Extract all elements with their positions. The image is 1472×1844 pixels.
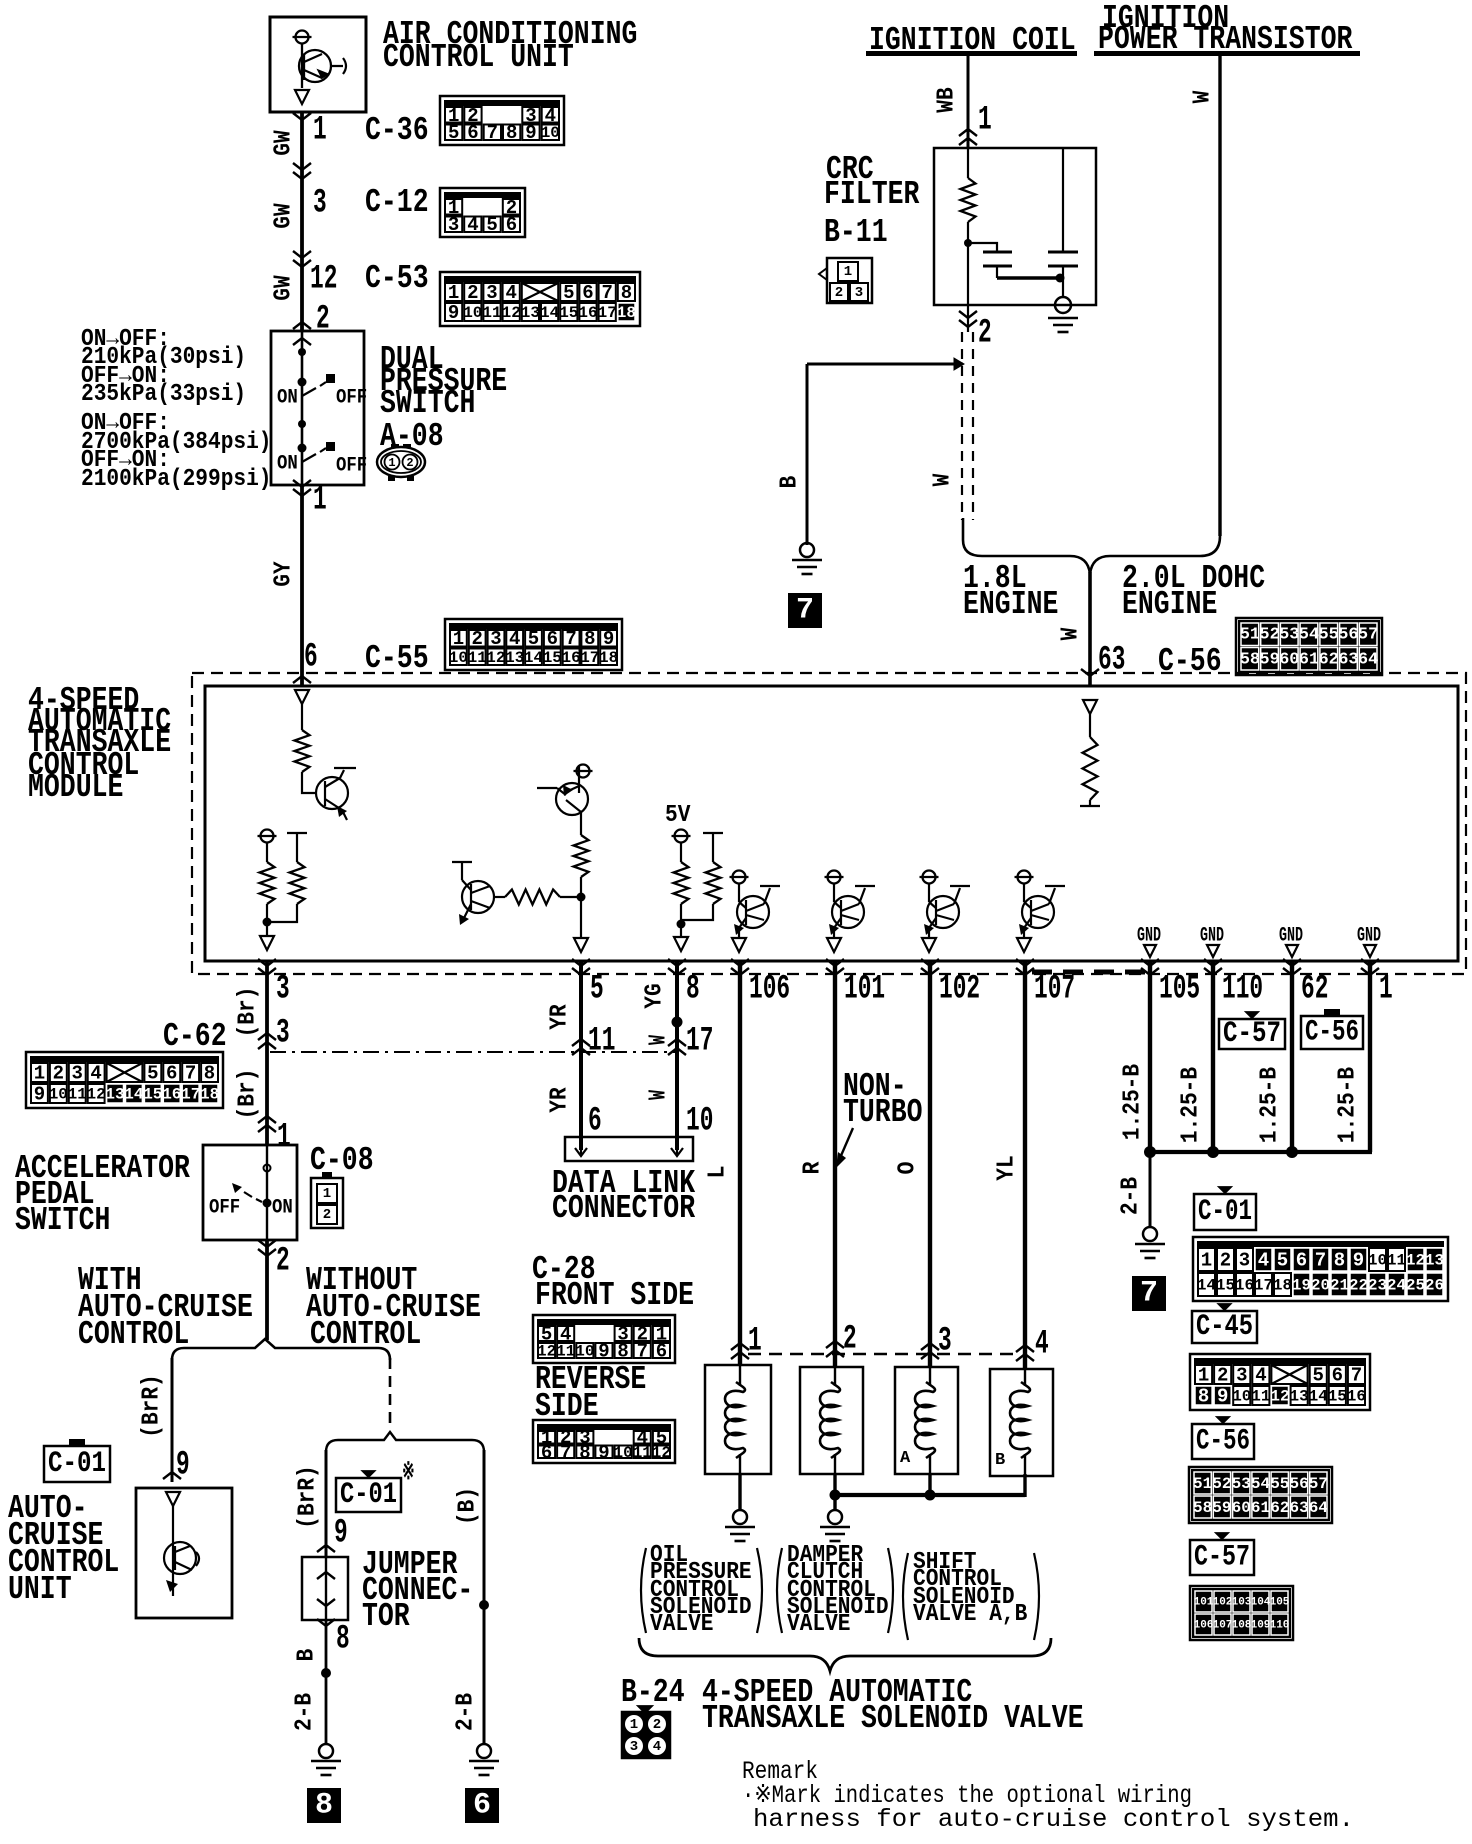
svg-text:※: ※ bbox=[402, 1460, 415, 1487]
svg-text:1: 1 bbox=[277, 1119, 291, 1157]
svg-text:GW: GW bbox=[271, 203, 298, 229]
svg-text:53: 53 bbox=[1232, 1475, 1251, 1493]
svg-text:3: 3 bbox=[276, 971, 290, 1009]
svg-text:16: 16 bbox=[578, 304, 597, 322]
solenoid valve name annotations bbox=[641, 1548, 646, 1633]
second split for jumper connector bbox=[326, 1432, 484, 1452]
box: auto-cruise control unit bbox=[136, 1488, 232, 1618]
svg-text:15: 15 bbox=[559, 304, 578, 322]
svg-text:ON: ON bbox=[272, 1197, 293, 1220]
svg-text:2: 2 bbox=[53, 1063, 64, 1085]
wire YG/W from pin 8 bbox=[675, 961, 679, 1150]
svg-text:10: 10 bbox=[49, 1086, 68, 1104]
svg-text:R: R bbox=[800, 1161, 827, 1175]
connector label C-01 bbox=[44, 1446, 110, 1482]
svg-text:12: 12 bbox=[652, 1444, 671, 1462]
svg-text:6: 6 bbox=[1332, 1365, 1343, 1387]
svg-text:CONTROL: CONTROL bbox=[78, 1316, 189, 1353]
connector C-45 bbox=[1190, 1354, 1370, 1410]
svg-text:TRANSAXLE SOLENOID VALVE: TRANSAXLE SOLENOID VALVE bbox=[702, 1700, 1084, 1737]
svg-text:56: 56 bbox=[1289, 1475, 1308, 1493]
wire O from pin 102 bbox=[928, 961, 932, 1367]
svg-text:13: 13 bbox=[505, 649, 524, 667]
svg-text:12: 12 bbox=[310, 261, 337, 299]
svg-text:11: 11 bbox=[633, 1444, 652, 1462]
svg-text:C-57: C-57 bbox=[1223, 1017, 1281, 1051]
svg-text:C-01: C-01 bbox=[1198, 1195, 1252, 1229]
svg-text:7: 7 bbox=[487, 122, 498, 144]
output transistor Q4 bbox=[733, 871, 746, 884]
svg-text:17: 17 bbox=[580, 649, 599, 667]
svg-text:18: 18 bbox=[1273, 1277, 1292, 1295]
connector C-56 (engine side) bbox=[1236, 618, 1382, 675]
svg-text:10: 10 bbox=[1232, 1388, 1251, 1406]
svg-text:ON: ON bbox=[277, 387, 298, 410]
connector C-53 bbox=[440, 272, 640, 326]
svg-text:12: 12 bbox=[1406, 1252, 1425, 1270]
output transistor Q6 bbox=[923, 871, 936, 884]
svg-text:W: W bbox=[646, 1035, 673, 1045]
svg-text:8: 8 bbox=[1334, 1250, 1345, 1272]
svg-text:YR: YR bbox=[547, 1004, 574, 1030]
svg-text:10: 10 bbox=[463, 304, 482, 322]
pin 2 of CRC filter bbox=[959, 311, 977, 327]
svg-text:7: 7 bbox=[565, 628, 576, 650]
ground ref box 8 bbox=[307, 1788, 341, 1823]
svg-text:58: 58 bbox=[1240, 650, 1260, 669]
svg-text:2: 2 bbox=[316, 301, 330, 339]
svg-text:C-62: C-62 bbox=[163, 1018, 227, 1055]
svg-text:4: 4 bbox=[1258, 1250, 1269, 1272]
svg-text:55: 55 bbox=[1270, 1475, 1289, 1493]
svg-text:10: 10 bbox=[575, 1343, 594, 1361]
svg-text:2-B: 2-B bbox=[1118, 1177, 1145, 1215]
svg-text:12: 12 bbox=[486, 649, 505, 667]
svg-text:52: 52 bbox=[1259, 626, 1279, 645]
svg-text:106: 106 bbox=[1194, 1620, 1214, 1632]
wire joining capacitors bbox=[996, 272, 998, 278]
svg-text:8: 8 bbox=[584, 628, 595, 650]
svg-text:YL: YL bbox=[994, 1155, 1021, 1180]
svg-text:VALVE: VALVE bbox=[787, 1611, 851, 1638]
svg-text:9: 9 bbox=[598, 1442, 609, 1464]
svg-text:SWITCH: SWITCH bbox=[380, 385, 475, 422]
box: dual pressure switch A-08 bbox=[271, 331, 364, 485]
svg-text:7: 7 bbox=[796, 594, 814, 628]
connector C-57 bbox=[1190, 1586, 1293, 1640]
svg-text:B-11: B-11 bbox=[824, 214, 888, 251]
svg-text:59: 59 bbox=[1259, 650, 1279, 669]
svg-text:6: 6 bbox=[473, 1789, 491, 1823]
svg-text:OFF: OFF bbox=[336, 387, 367, 410]
svg-text:7: 7 bbox=[601, 282, 612, 304]
svg-text:11: 11 bbox=[556, 1343, 575, 1361]
bold dashed border segment bbox=[1032, 970, 1146, 975]
case ground of CRC filter bbox=[1062, 278, 1064, 297]
svg-text:13: 13 bbox=[1289, 1388, 1308, 1406]
svg-text:1.25-B: 1.25-B bbox=[1335, 1067, 1362, 1143]
svg-text:17: 17 bbox=[1254, 1277, 1273, 1295]
svg-text:C-12: C-12 bbox=[365, 184, 429, 221]
svg-text:1: 1 bbox=[453, 628, 464, 650]
svg-text:107: 107 bbox=[1034, 971, 1075, 1009]
svg-text:YG: YG bbox=[642, 983, 669, 1008]
svg-text:1: 1 bbox=[630, 1717, 638, 1733]
solenoid valve 4 (shift control B) bbox=[990, 1369, 1053, 1476]
svg-text:(Br): (Br) bbox=[235, 987, 262, 1038]
svg-text:16: 16 bbox=[162, 1086, 181, 1104]
svg-text:18: 18 bbox=[200, 1086, 219, 1104]
svg-text:9: 9 bbox=[334, 1515, 348, 1553]
svg-text:9: 9 bbox=[34, 1084, 45, 1106]
svg-text:4: 4 bbox=[467, 214, 478, 236]
solenoid valve 3 (shift control A) bbox=[895, 1367, 958, 1474]
wire W from ignition power transistor down bbox=[1218, 56, 1221, 536]
svg-text:C-01: C-01 bbox=[340, 1478, 397, 1512]
svg-text:W: W bbox=[646, 1090, 673, 1100]
svg-text:61: 61 bbox=[1251, 1499, 1270, 1517]
switch contact 1 (ON/OFF) bbox=[298, 378, 307, 387]
svg-text:103: 103 bbox=[1232, 1597, 1252, 1609]
svg-text:C-56: C-56 bbox=[1305, 1016, 1359, 1050]
svg-text:4: 4 bbox=[90, 1063, 101, 1085]
svg-text:3: 3 bbox=[490, 628, 501, 650]
svg-text:62: 62 bbox=[1270, 1499, 1289, 1517]
svg-text:(Br): (Br) bbox=[235, 1069, 262, 1120]
svg-text:3: 3 bbox=[276, 1015, 290, 1053]
svg-text:5: 5 bbox=[1312, 1365, 1323, 1387]
svg-text:1.25-B: 1.25-B bbox=[1120, 1064, 1147, 1140]
connector C-28 reverse side bbox=[533, 1420, 675, 1463]
connector C-55 bbox=[445, 619, 622, 670]
box: accelerator pedal switch bbox=[203, 1145, 297, 1240]
connector label C-01 with asterisk bbox=[336, 1478, 401, 1512]
wire 2-B to ground bbox=[1149, 1152, 1152, 1228]
svg-text:1: 1 bbox=[34, 1063, 45, 1085]
svg-text:1: 1 bbox=[313, 112, 327, 150]
svg-text:105: 105 bbox=[1270, 1597, 1290, 1609]
svg-text:2: 2 bbox=[276, 1243, 290, 1281]
svg-text:3: 3 bbox=[630, 1739, 638, 1755]
connector B-11 bbox=[827, 258, 872, 303]
svg-text:59: 59 bbox=[1212, 1499, 1231, 1517]
wire YL from pin 107 bbox=[1023, 961, 1027, 1369]
svg-text:107: 107 bbox=[1213, 1620, 1233, 1632]
svg-text:5: 5 bbox=[486, 214, 497, 236]
svg-text:4: 4 bbox=[653, 1739, 661, 1755]
connector label C-45 bbox=[1192, 1311, 1257, 1343]
svg-text:C-36: C-36 bbox=[365, 112, 429, 149]
output transistor Q5 bbox=[828, 871, 841, 884]
engine variant merge 1.8L / 2.0L bbox=[963, 518, 1090, 574]
svg-text:10: 10 bbox=[613, 1444, 632, 1462]
svg-text:VALVE: VALVE bbox=[650, 1611, 714, 1638]
ground ref box 6 bbox=[465, 1788, 499, 1823]
svg-text:10: 10 bbox=[686, 1103, 713, 1141]
power feed symbol inside A/C unit bbox=[296, 31, 309, 44]
connector label C-57 on wire 110 bbox=[1219, 1019, 1285, 1049]
wire R from pin 101 bbox=[833, 961, 837, 1367]
internal circuit: input stage from pin 6 bbox=[295, 690, 309, 704]
svg-text:ENGINE: ENGINE bbox=[963, 586, 1058, 623]
svg-text:1.25-B: 1.25-B bbox=[1257, 1067, 1284, 1143]
svg-text:12: 12 bbox=[537, 1343, 556, 1361]
svg-text:OFF: OFF bbox=[336, 455, 367, 478]
svg-text:101: 101 bbox=[844, 971, 885, 1009]
svg-text:62: 62 bbox=[1301, 971, 1328, 1009]
wire through dual pressure switch bbox=[301, 331, 304, 485]
svg-text:53: 53 bbox=[1279, 626, 1299, 645]
svg-text:11: 11 bbox=[1251, 1388, 1270, 1406]
svg-text:15: 15 bbox=[1328, 1388, 1347, 1406]
svg-text:FRONT SIDE: FRONT SIDE bbox=[535, 1277, 694, 1314]
svg-text:B: B bbox=[777, 476, 804, 489]
svg-text:6: 6 bbox=[166, 1063, 177, 1085]
switch contact inside accelerator pedal switch bbox=[266, 1145, 268, 1240]
svg-text:1: 1 bbox=[313, 482, 327, 520]
svg-text:12: 12 bbox=[86, 1086, 105, 1104]
svg-text:1: 1 bbox=[388, 456, 395, 470]
svg-text:5V: 5V bbox=[665, 802, 691, 829]
svg-text:ENGINE: ENGINE bbox=[1122, 586, 1217, 623]
svg-text:CONTROL UNIT: CONTROL UNIT bbox=[383, 39, 574, 76]
svg-text:(BrR): (BrR) bbox=[139, 1374, 166, 1438]
svg-text:17: 17 bbox=[598, 304, 617, 322]
svg-text:2100kPa(299psi): 2100kPa(299psi) bbox=[81, 466, 272, 493]
svg-text:21: 21 bbox=[1330, 1277, 1349, 1295]
svg-text:ON: ON bbox=[277, 453, 298, 476]
svg-text:1.25-B: 1.25-B bbox=[1178, 1067, 1205, 1143]
svg-text:1: 1 bbox=[978, 102, 992, 140]
svg-text:W: W bbox=[930, 473, 957, 486]
svg-text:58: 58 bbox=[1193, 1499, 1212, 1517]
svg-text:16: 16 bbox=[1347, 1388, 1366, 1406]
ground ref box 7 bbox=[788, 593, 822, 628]
svg-text:7: 7 bbox=[1315, 1250, 1326, 1272]
svg-text:2: 2 bbox=[323, 1207, 331, 1223]
svg-text:B: B bbox=[294, 1649, 321, 1662]
svg-text:1: 1 bbox=[1198, 1365, 1209, 1387]
ground symbol bbox=[477, 1744, 491, 1758]
svg-text:13: 13 bbox=[521, 304, 540, 322]
svg-text:52: 52 bbox=[1212, 1475, 1231, 1493]
svg-text:24: 24 bbox=[1387, 1277, 1407, 1295]
left branch wire (BrR) bbox=[171, 1358, 174, 1482]
connector A-08 oval bbox=[377, 447, 425, 477]
dash-dot junction line bbox=[270, 1051, 677, 1053]
svg-text:C-55: C-55 bbox=[365, 640, 429, 677]
transistor Q1 bbox=[316, 777, 348, 809]
svg-text:2: 2 bbox=[978, 315, 992, 353]
svg-text:3: 3 bbox=[1239, 1250, 1250, 1272]
wire below accelerator switch bbox=[265, 1240, 269, 1340]
wire WB from ignition coil bbox=[967, 56, 970, 148]
svg-text:110: 110 bbox=[1222, 971, 1263, 1009]
box: jumper connector bbox=[302, 1557, 348, 1620]
svg-text:5: 5 bbox=[528, 628, 539, 650]
svg-text:1: 1 bbox=[1379, 971, 1393, 1009]
brace for B-24 group bbox=[639, 1638, 1051, 1671]
svg-text:2: 2 bbox=[471, 628, 482, 650]
svg-text:2: 2 bbox=[835, 285, 843, 301]
svg-text:C-01: C-01 bbox=[48, 1447, 106, 1481]
output arrow bbox=[260, 936, 274, 950]
svg-text:OFF: OFF bbox=[209, 1197, 240, 1220]
svg-text:6: 6 bbox=[541, 1442, 552, 1464]
tee bar bbox=[287, 832, 307, 834]
svg-text:(BrR): (BrR) bbox=[295, 1465, 322, 1529]
wire GW from A/C unit down to dual pressure switch bbox=[300, 112, 304, 331]
svg-text:5: 5 bbox=[448, 122, 459, 144]
internal resistor from pin 63 bbox=[1083, 700, 1097, 714]
box: CRC filter B-11 bbox=[934, 148, 1096, 305]
connector label C-57 bbox=[1190, 1540, 1254, 1575]
svg-text:GW: GW bbox=[271, 130, 298, 156]
svg-text:3: 3 bbox=[71, 1063, 82, 1085]
svg-text:14: 14 bbox=[524, 649, 544, 667]
transistor Q3 bbox=[577, 765, 590, 778]
transistor Q2 bbox=[462, 881, 494, 913]
svg-text:YR: YR bbox=[547, 1087, 574, 1113]
svg-text:6: 6 bbox=[582, 282, 593, 304]
svg-text:109: 109 bbox=[1251, 1620, 1271, 1632]
wire (Br) from pin 3 to accelerator pedal switch bbox=[265, 961, 269, 1145]
svg-text:6: 6 bbox=[588, 1103, 602, 1141]
svg-text:UNIT: UNIT bbox=[8, 1571, 72, 1608]
svg-text:WB: WB bbox=[934, 87, 961, 112]
svg-text:60: 60 bbox=[1279, 650, 1299, 669]
svg-text:14: 14 bbox=[540, 304, 560, 322]
svg-text:105: 105 bbox=[1159, 971, 1200, 1009]
svg-text:9: 9 bbox=[176, 1447, 190, 1485]
svg-text:9: 9 bbox=[603, 628, 614, 650]
svg-text:FILTER: FILTER bbox=[824, 176, 920, 213]
svg-text:19: 19 bbox=[1292, 1277, 1311, 1295]
svg-text:8: 8 bbox=[617, 1341, 628, 1363]
svg-text:C-57: C-57 bbox=[1194, 1541, 1250, 1575]
solenoid valve 1 (oil pressure control) bbox=[705, 1365, 771, 1474]
svg-text:TURBO: TURBO bbox=[843, 1094, 923, 1131]
svg-text:8: 8 bbox=[336, 1621, 350, 1659]
svg-text:4: 4 bbox=[505, 282, 516, 304]
svg-text:8: 8 bbox=[579, 1442, 590, 1464]
svg-text:108: 108 bbox=[1232, 1620, 1252, 1632]
transistor inside auto-cruise unit bbox=[166, 1492, 180, 1506]
svg-text:64: 64 bbox=[1309, 1499, 1329, 1517]
svg-text:63: 63 bbox=[1289, 1499, 1308, 1517]
svg-text:20: 20 bbox=[1311, 1277, 1330, 1295]
svg-text:12: 12 bbox=[1270, 1388, 1289, 1406]
svg-text:13: 13 bbox=[1425, 1252, 1444, 1270]
right sub branch wire (B) bbox=[483, 1450, 486, 1745]
svg-text:5: 5 bbox=[590, 971, 604, 1009]
svg-text:18: 18 bbox=[617, 304, 636, 322]
capacitor 1 inside CRC filter bbox=[968, 243, 997, 252]
svg-text:4: 4 bbox=[1255, 1365, 1266, 1387]
optional dashed line across solenoid pins bbox=[748, 1353, 1018, 1355]
svg-text:101: 101 bbox=[1194, 1597, 1214, 1609]
svg-text:3: 3 bbox=[1236, 1365, 1247, 1387]
svg-text:25: 25 bbox=[1406, 1277, 1425, 1295]
svg-text:54: 54 bbox=[1299, 626, 1319, 645]
svg-text:54: 54 bbox=[1251, 1475, 1271, 1493]
svg-text:C-08: C-08 bbox=[310, 1142, 374, 1179]
svg-text:23: 23 bbox=[1368, 1277, 1387, 1295]
svg-text:GY: GY bbox=[271, 561, 298, 587]
svg-text:104: 104 bbox=[1251, 1597, 1271, 1609]
svg-text:55: 55 bbox=[1318, 626, 1338, 645]
svg-text:7: 7 bbox=[1351, 1365, 1362, 1387]
internal circuit: resistor divider pair A bbox=[261, 830, 274, 843]
svg-text:17: 17 bbox=[686, 1023, 713, 1061]
svg-text:2-B: 2-B bbox=[292, 1693, 319, 1731]
svg-text:2: 2 bbox=[406, 456, 413, 470]
svg-text:B: B bbox=[995, 1451, 1005, 1470]
switch contact 2 (ON/OFF) bbox=[298, 444, 307, 453]
svg-text:11: 11 bbox=[68, 1086, 87, 1104]
svg-text:C-53: C-53 bbox=[365, 260, 429, 297]
svg-text:6: 6 bbox=[1296, 1250, 1307, 1272]
svg-text:1: 1 bbox=[844, 264, 852, 280]
wire B to ground bbox=[807, 363, 963, 366]
svg-text:9: 9 bbox=[448, 302, 459, 324]
svg-text:63: 63 bbox=[1338, 650, 1358, 669]
wire (BrR) into jumper connector bbox=[325, 1450, 328, 1557]
connector C-62 bbox=[26, 1052, 223, 1108]
solid box of control module bbox=[205, 686, 1458, 961]
optional wire W (dashed) below CRC filter bbox=[961, 332, 963, 520]
svg-text:61: 61 bbox=[1299, 650, 1319, 669]
svg-text:10: 10 bbox=[541, 124, 560, 142]
svg-text:9: 9 bbox=[525, 122, 536, 144]
wire GY from pressure switch down to module pin 6 bbox=[300, 485, 304, 686]
svg-text:8: 8 bbox=[686, 971, 700, 1009]
svg-text:26: 26 bbox=[1425, 1277, 1444, 1295]
svg-text:8: 8 bbox=[621, 282, 632, 304]
solenoid valve 2 (damper clutch control) bbox=[800, 1367, 863, 1474]
svg-text:2: 2 bbox=[1220, 1250, 1231, 1272]
svg-text:W: W bbox=[1190, 90, 1217, 103]
svg-text:10: 10 bbox=[449, 649, 468, 667]
svg-text:56: 56 bbox=[1338, 626, 1358, 645]
svg-text:64: 64 bbox=[1358, 650, 1378, 669]
svg-text:9: 9 bbox=[598, 1341, 609, 1363]
connector B-24 bbox=[622, 1712, 670, 1758]
svg-text:5: 5 bbox=[147, 1063, 158, 1085]
svg-text:106: 106 bbox=[749, 971, 790, 1009]
svg-text:14: 14 bbox=[1197, 1277, 1217, 1295]
svg-text:8: 8 bbox=[204, 1063, 215, 1085]
arrow out of A/C unit bbox=[295, 90, 309, 104]
svg-text:MODULE: MODULE bbox=[28, 769, 123, 806]
output transistor Q7 bbox=[1018, 871, 1031, 884]
svg-text:15: 15 bbox=[1216, 1277, 1235, 1295]
connector C-12 bbox=[440, 188, 525, 237]
svg-text:7: 7 bbox=[185, 1063, 196, 1085]
svg-text:11: 11 bbox=[482, 304, 501, 322]
svg-text:7: 7 bbox=[637, 1341, 648, 1363]
connector C-56 bbox=[1189, 1467, 1332, 1523]
svg-text:57: 57 bbox=[1309, 1475, 1328, 1493]
connector C-01 bbox=[1193, 1237, 1448, 1301]
ground for wire B bbox=[800, 543, 814, 557]
svg-text:9: 9 bbox=[1353, 1250, 1364, 1272]
svg-text:60: 60 bbox=[1232, 1499, 1251, 1517]
svg-text:7: 7 bbox=[560, 1442, 571, 1464]
wire L from pin 106 bbox=[738, 961, 742, 1365]
resistor inside CRC filter bbox=[967, 148, 969, 178]
svg-text:6: 6 bbox=[506, 214, 517, 236]
